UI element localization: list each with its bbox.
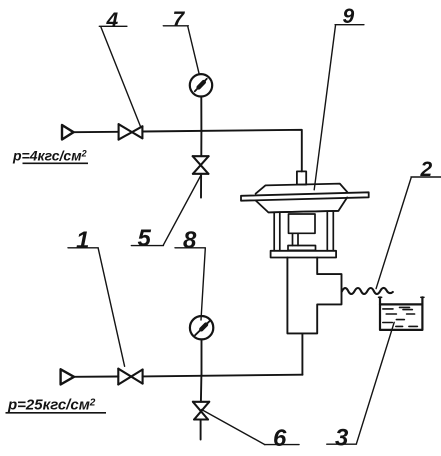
wire stub below V6: [200, 420, 202, 440]
gauge MN7: [190, 74, 212, 96]
wire stub below V5: [200, 174, 202, 198]
tank: [379, 296, 424, 298]
wire bottom pipe right segment: [143, 375, 303, 377]
svg-text:6: 6: [273, 425, 287, 452]
leader label 3: [327, 322, 394, 444]
positioner plate: [288, 246, 316, 251]
svg-text:5: 5: [138, 225, 152, 252]
actuator dome top: [256, 184, 348, 194]
svg-text:7: 7: [173, 8, 186, 31]
leader label 4: [99, 26, 141, 127]
hose squiggle: [342, 288, 393, 294]
leader label 1: [68, 248, 125, 366]
leader label 7: [163, 26, 199, 75]
wire gauge7 drop: [200, 97, 202, 132]
gauge MN8: [190, 316, 213, 339]
wire top pipe right segment with elbow down to actuator: [142, 130, 301, 172]
leader label 9: [314, 25, 364, 190]
svg-text:3: 3: [335, 425, 349, 452]
actuator stem: [297, 171, 306, 184]
wire outlet drop: [301, 333, 303, 374]
valve V6: [193, 402, 209, 420]
svg-text:1: 1: [76, 227, 89, 254]
yoke bracket: [271, 251, 337, 258]
positioner block: [289, 214, 316, 233]
svg-text:2: 2: [420, 158, 433, 181]
valve V5: [193, 156, 209, 174]
svg-text:p=25кгс/см2: p=25кгс/см2: [7, 397, 96, 414]
svg-text:p=4кгс/см2: p=4кгс/см2: [12, 148, 87, 164]
tank liquid level: [380, 303, 422, 305]
wire pipe to valve V5: [200, 132, 202, 157]
positioner stem: [293, 233, 299, 245]
wire gauge8 drop: [201, 340, 203, 376]
svg-text:8: 8: [183, 227, 197, 254]
valve body: [287, 258, 341, 334]
valve V4: [119, 124, 143, 139]
yoke columns: [274, 212, 333, 251]
tank liquid dashes: [383, 307, 418, 326]
wire pipe to valve V6: [200, 375, 203, 402]
svg-text:9: 9: [343, 5, 355, 28]
svg-text:4: 4: [106, 9, 119, 32]
leader label 8: [175, 248, 205, 320]
actuator dome bottom: [256, 197, 347, 212]
actuator flange: [241, 192, 369, 200]
arrow (inlet, top line): [62, 125, 74, 140]
valve V1: [118, 369, 142, 385]
leader label 5: [131, 176, 200, 246]
leader label 2: [376, 177, 441, 289]
arrow (inlet, bottom line): [61, 369, 74, 384]
wire top pipe left segment: [74, 131, 119, 133]
leader label 6: [202, 410, 300, 445]
wire bottom pipe left segment: [74, 376, 118, 378]
